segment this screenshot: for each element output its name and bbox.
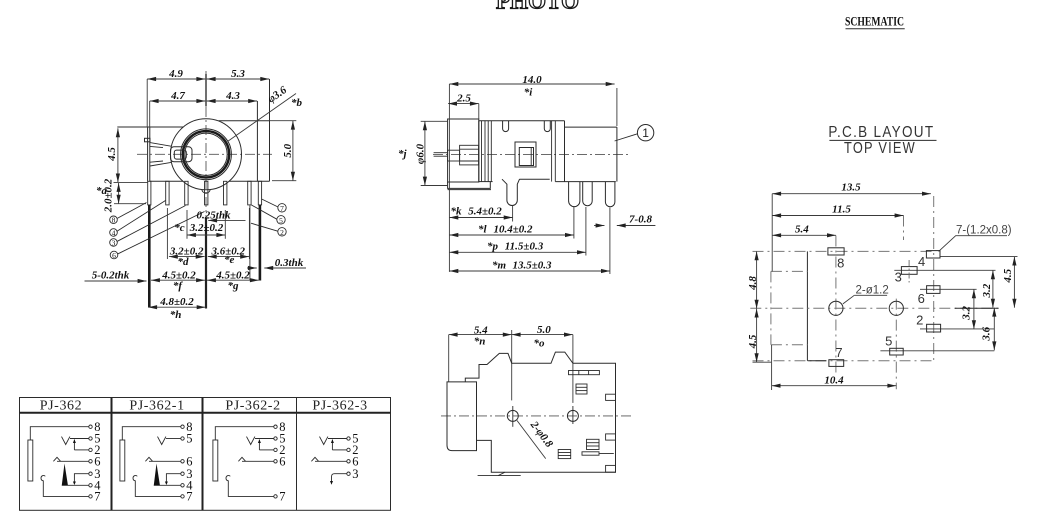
svg-text:2: 2 [280,228,284,237]
svg-text:5.4±0.2: 5.4±0.2 [468,206,502,218]
svg-text:5: 5 [885,334,892,349]
svg-text:*c: *c [174,222,185,234]
svg-text:3.2: 3.2 [961,306,973,321]
svg-text:7: 7 [186,490,192,504]
svg-text:0.25thk: 0.25thk [197,210,231,222]
svg-text:6: 6 [918,291,925,306]
svg-text:7: 7 [835,345,842,360]
svg-text:4.5: 4.5 [106,147,118,162]
svg-text:3: 3 [112,238,116,247]
svg-text:4.3: 4.3 [225,90,240,102]
svg-text:3.6: 3.6 [981,326,993,341]
svg-text:2-φ0.8: 2-φ0.8 [527,418,555,450]
svg-text:5-0.2thk: 5-0.2thk [92,270,130,282]
svg-text:7: 7 [279,490,285,504]
svg-text:3: 3 [895,270,902,285]
svg-text:*j: *j [398,148,408,160]
svg-text:6: 6 [112,251,116,260]
svg-text:*m: *m [492,260,507,272]
svg-text:PJ-362: PJ-362 [40,399,83,414]
svg-text:11.5: 11.5 [832,204,851,216]
svg-text:4.8±0.2: 4.8±0.2 [159,296,194,308]
svg-text:*k: *k [451,206,463,218]
svg-text:SCHEMATIC: SCHEMATIC [845,15,904,29]
svg-text:2.5: 2.5 [456,93,471,105]
svg-text:PJ-362-1: PJ-362-1 [129,399,184,414]
svg-text:*h: *h [170,309,182,321]
svg-text:5: 5 [279,216,283,225]
svg-text:4.9: 4.9 [168,68,183,80]
svg-text:4.8: 4.8 [747,276,759,291]
svg-text:PJ-362-2: PJ-362-2 [225,399,280,414]
svg-text:5.3: 5.3 [231,68,245,80]
svg-text:6: 6 [279,454,285,468]
svg-text:*p: *p [487,240,499,252]
svg-text:5.0: 5.0 [282,143,294,157]
svg-text:10.4: 10.4 [824,375,844,387]
svg-text:*l: *l [478,223,488,235]
svg-text:5.4: 5.4 [795,224,809,236]
svg-text:*e: *e [224,254,235,266]
svg-text:7: 7 [94,490,100,504]
svg-text:4: 4 [112,228,116,237]
svg-text:*f: *f [173,280,184,292]
svg-text:4.7: 4.7 [170,90,185,102]
svg-text:2.0±0.2: 2.0±0.2 [103,178,115,213]
svg-text:8: 8 [112,216,116,225]
svg-text:4: 4 [918,254,925,269]
svg-text:8: 8 [837,256,844,271]
svg-text:4.5: 4.5 [747,334,759,349]
svg-text:3: 3 [352,467,358,481]
svg-text:2-ø1.2: 2-ø1.2 [856,285,889,297]
svg-text:PHOTO: PHOTO [496,0,580,14]
svg-text:*d: *d [178,256,190,268]
svg-text:1: 1 [642,126,649,140]
svg-text:7-(1.2x0.8): 7-(1.2x0.8) [956,225,1012,237]
svg-text:P.C.B LAYOUT: P.C.B LAYOUT [828,124,934,141]
svg-text:PJ-362-3: PJ-362-3 [312,399,367,414]
svg-text:3.2±0.2: 3.2±0.2 [189,222,224,234]
svg-text:7: 7 [280,204,284,213]
svg-text:5: 5 [186,432,192,446]
svg-text:7-0.8: 7-0.8 [629,214,652,226]
svg-text:2: 2 [916,313,923,328]
svg-text:*n: *n [474,336,486,348]
svg-text:13.5±0.3: 13.5±0.3 [512,260,552,272]
svg-text:0.3thk: 0.3thk [275,257,304,269]
svg-text:10.4±0.2: 10.4±0.2 [493,223,533,235]
svg-text:4.5: 4.5 [1002,268,1014,283]
svg-text:*g: *g [228,280,240,292]
svg-text:11.5±0.3: 11.5±0.3 [505,240,544,252]
svg-text:*o: *o [534,338,546,350]
svg-text:TOP VIEW: TOP VIEW [844,140,916,157]
svg-text:*i: *i [524,87,534,99]
svg-text:3.2: 3.2 [981,283,993,298]
svg-text:*b: *b [291,97,303,109]
svg-text:13.5: 13.5 [841,182,861,194]
